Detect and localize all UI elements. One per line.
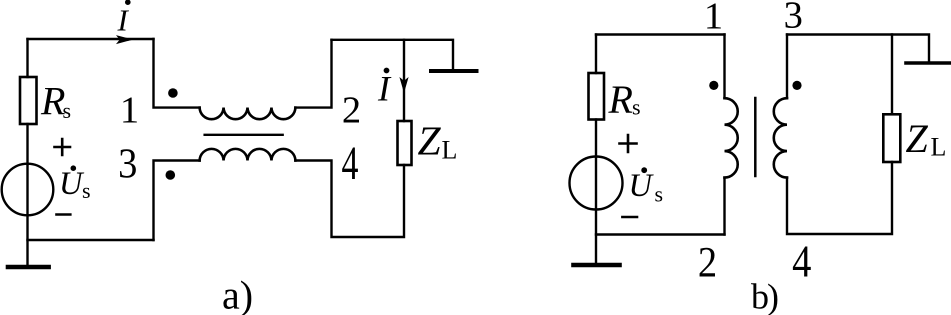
svg-text:L: L: [931, 133, 947, 162]
svg-text:4: 4: [342, 137, 359, 190]
svg-text:I: I: [377, 69, 392, 109]
svg-text:Z: Z: [418, 118, 442, 164]
svg-text:1: 1: [704, 0, 723, 38]
svg-text:R: R: [608, 77, 633, 122]
svg-text:U: U: [629, 168, 655, 204]
svg-text:Z: Z: [906, 116, 929, 161]
svg-text:a): a): [222, 273, 253, 315]
svg-text:I: I: [117, 3, 130, 38]
svg-text:2: 2: [342, 90, 361, 132]
svg-text:s: s: [655, 182, 664, 207]
svg-text:3: 3: [118, 140, 137, 187]
svg-text:s: s: [632, 95, 641, 120]
svg-text:L: L: [442, 136, 458, 165]
svg-text:b): b): [751, 277, 778, 315]
svg-text:s: s: [82, 178, 91, 203]
svg-text:2: 2: [698, 239, 717, 286]
svg-text:3: 3: [784, 0, 803, 37]
svg-text:4: 4: [792, 237, 811, 288]
svg-text:1: 1: [120, 90, 139, 132]
svg-text:s: s: [63, 98, 72, 123]
